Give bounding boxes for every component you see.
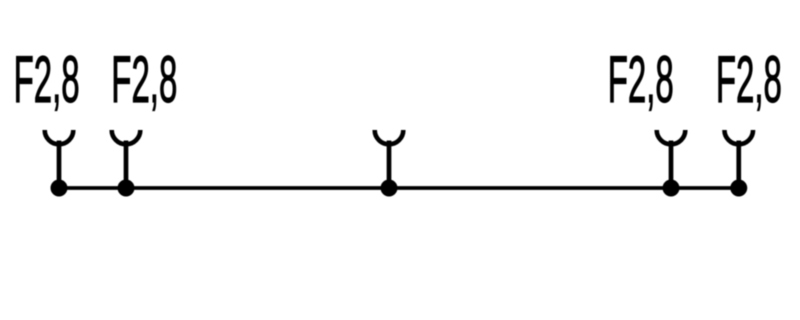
terminal T1 (socket arc + stem) <box>45 130 74 188</box>
junction node 2 <box>118 180 135 197</box>
terminal T3 (socket arc + stem, unlabeled) <box>375 130 404 188</box>
junction node 5 <box>730 180 747 197</box>
terminal T2 (socket arc + stem) <box>112 130 141 188</box>
svg-text:F2,8: F2,8 <box>14 43 80 116</box>
terminal T5 (socket arc + stem) <box>724 130 753 188</box>
svg-text:F2,8: F2,8 <box>716 43 782 116</box>
junction node 1 <box>51 180 68 197</box>
junction node 3 <box>381 180 398 197</box>
wire: horizontal supply bus <box>59 186 739 190</box>
junction node 4 <box>663 180 680 197</box>
svg-text:F2,8: F2,8 <box>608 43 674 116</box>
terminal T4 (socket arc + stem) <box>657 130 686 188</box>
svg-text:F2,8: F2,8 <box>111 43 177 116</box>
